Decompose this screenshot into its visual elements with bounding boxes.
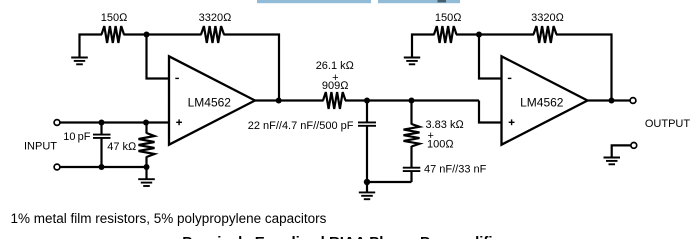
- op-amp U2: [502, 56, 588, 144]
- junction series R to shunt C: [364, 98, 370, 104]
- junction node A: [144, 32, 150, 38]
- svg-text:3320Ω: 3320Ω: [531, 12, 564, 24]
- resistor 3320 ohm right: [534, 26, 557, 43]
- link highlight bar left: [257, 0, 371, 3]
- svg-text:47 kΩ: 47 kΩ: [107, 141, 137, 153]
- wire: capacitor C1 bottom lead: [100, 139, 102, 168]
- svg-text:47 nF//33 nF: 47 nF//33 nF: [424, 164, 487, 176]
- op-amp U2 plus sign: [509, 119, 515, 125]
- svg-text:INPUT: INPUT: [24, 141, 57, 153]
- wire: U1 output to series resistor: [255, 99, 324, 101]
- svg-text:OUTPUT: OUTPUT: [645, 118, 691, 130]
- capacitor 22nF//4.7nF//500pF plates: [358, 122, 376, 125]
- resistor 150 ohm left: [102, 26, 125, 43]
- wire: resistor R3 bottom lead to ground: [145, 157, 147, 168]
- ground G5 output terminal: [604, 158, 621, 165]
- wire: bottom return rail: [367, 181, 412, 183]
- svg-text:22 nF//4.7 nF//500 pF: 22 nF//4.7 nF//500 pF: [248, 120, 354, 132]
- svg-text:26.1 kΩ: 26.1 kΩ: [316, 60, 355, 72]
- ground G2 input network: [138, 179, 155, 186]
- svg-text:LM4562: LM4562: [188, 95, 232, 109]
- junction shunt RC branch: [409, 98, 415, 104]
- junction U2 output node: [609, 98, 615, 104]
- wire: ground2 stem: [145, 167, 147, 179]
- resistor 47k input: [139, 133, 155, 157]
- junction 47k top: [143, 120, 149, 126]
- junction 47k bottom: [144, 164, 150, 170]
- link highlight bar right: [378, 0, 460, 3]
- wire: R5 to R6 through node B: [456, 33, 534, 35]
- svg-text:150Ω: 150Ω: [435, 12, 462, 24]
- wire: R4 to capacitor C3 lead: [410, 146, 412, 167]
- op-amp U2 minus sign: [508, 77, 512, 79]
- svg-text:150Ω: 150Ω: [101, 12, 128, 24]
- wire: U2 output to OUTPUT terminal: [588, 99, 631, 101]
- junction bottom rail ground tap: [364, 179, 370, 185]
- wire: series resistor to jog corner of U2: [345, 99, 479, 101]
- resistor 150 ohm right: [434, 26, 457, 43]
- wire: resistor R4 top lead: [410, 101, 412, 125]
- svg-text:909Ω: 909Ω: [322, 80, 349, 92]
- wire: ground4 to R5: [412, 35, 435, 58]
- op-amp U1 minus sign: [175, 77, 179, 79]
- svg-text:10 pF: 10 pF: [63, 131, 91, 143]
- svg-text:Passively Equalized RIAA Phono: Passively Equalized RIAA Phono Preamplif…: [182, 234, 507, 239]
- svg-text:100Ω: 100Ω: [427, 139, 454, 151]
- terminal INPUT top: [54, 120, 60, 126]
- svg-text:1% metal film resistors, 5% po: 1% metal film resistors, 5% polypropylen…: [11, 211, 327, 226]
- wire: R2 to feedback corner down to output node: [224, 35, 280, 101]
- wire: input bottom rail: [60, 166, 147, 168]
- wire: resistor R3 top lead: [145, 123, 147, 134]
- wire: node A down to inverting input U1: [147, 35, 170, 79]
- junction 10pF top: [99, 120, 105, 126]
- junction node B: [476, 32, 482, 38]
- wire: capacitor C2 bottom lead: [366, 127, 368, 183]
- wire: capacitor C1 top lead: [100, 123, 102, 135]
- op-amp U1: [169, 56, 255, 144]
- terminal OUTPUT: [630, 98, 636, 104]
- wire: R1 to R2 through node A: [124, 33, 202, 35]
- op-amp U1 plus sign: [176, 119, 182, 125]
- wire: capacitor C2 top lead: [366, 101, 368, 122]
- wire: R6 to feedback corner down to output node: [556, 35, 612, 101]
- wire: node B down to inverting input U2: [479, 35, 502, 79]
- ground G4 top right: [404, 58, 420, 65]
- wire: output ground terminal arm: [612, 145, 631, 157]
- wire: input top rail to noninverting input U1: [60, 121, 169, 123]
- capacitor 10pF plates: [93, 135, 111, 138]
- junction 10pF bottom: [99, 164, 105, 170]
- terminal INPUT bottom: [54, 164, 60, 170]
- terminal output ground: [631, 143, 637, 149]
- junction U1 output node: [276, 98, 282, 104]
- capacitor 47nF//33nF plates: [403, 168, 421, 171]
- resistor 3320 ohm left: [201, 26, 224, 43]
- wire: ground1 to R1: [80, 35, 103, 58]
- svg-text:3320Ω: 3320Ω: [199, 12, 232, 24]
- ground G1 top left: [71, 58, 88, 65]
- svg-text:LM4562: LM4562: [520, 95, 564, 109]
- resistor 26.1k + 909 series: [323, 92, 346, 109]
- wire: C3 bottom lead to return rail: [410, 172, 412, 183]
- ground G3 mid network: [359, 192, 375, 199]
- wire: signal jog down into noninverting input U2: [479, 101, 502, 123]
- wire: ground3 stem: [366, 182, 368, 192]
- resistor 3.83k + 100 shunt: [404, 124, 420, 147]
- link glyph descender mark: [438, 0, 447, 2]
